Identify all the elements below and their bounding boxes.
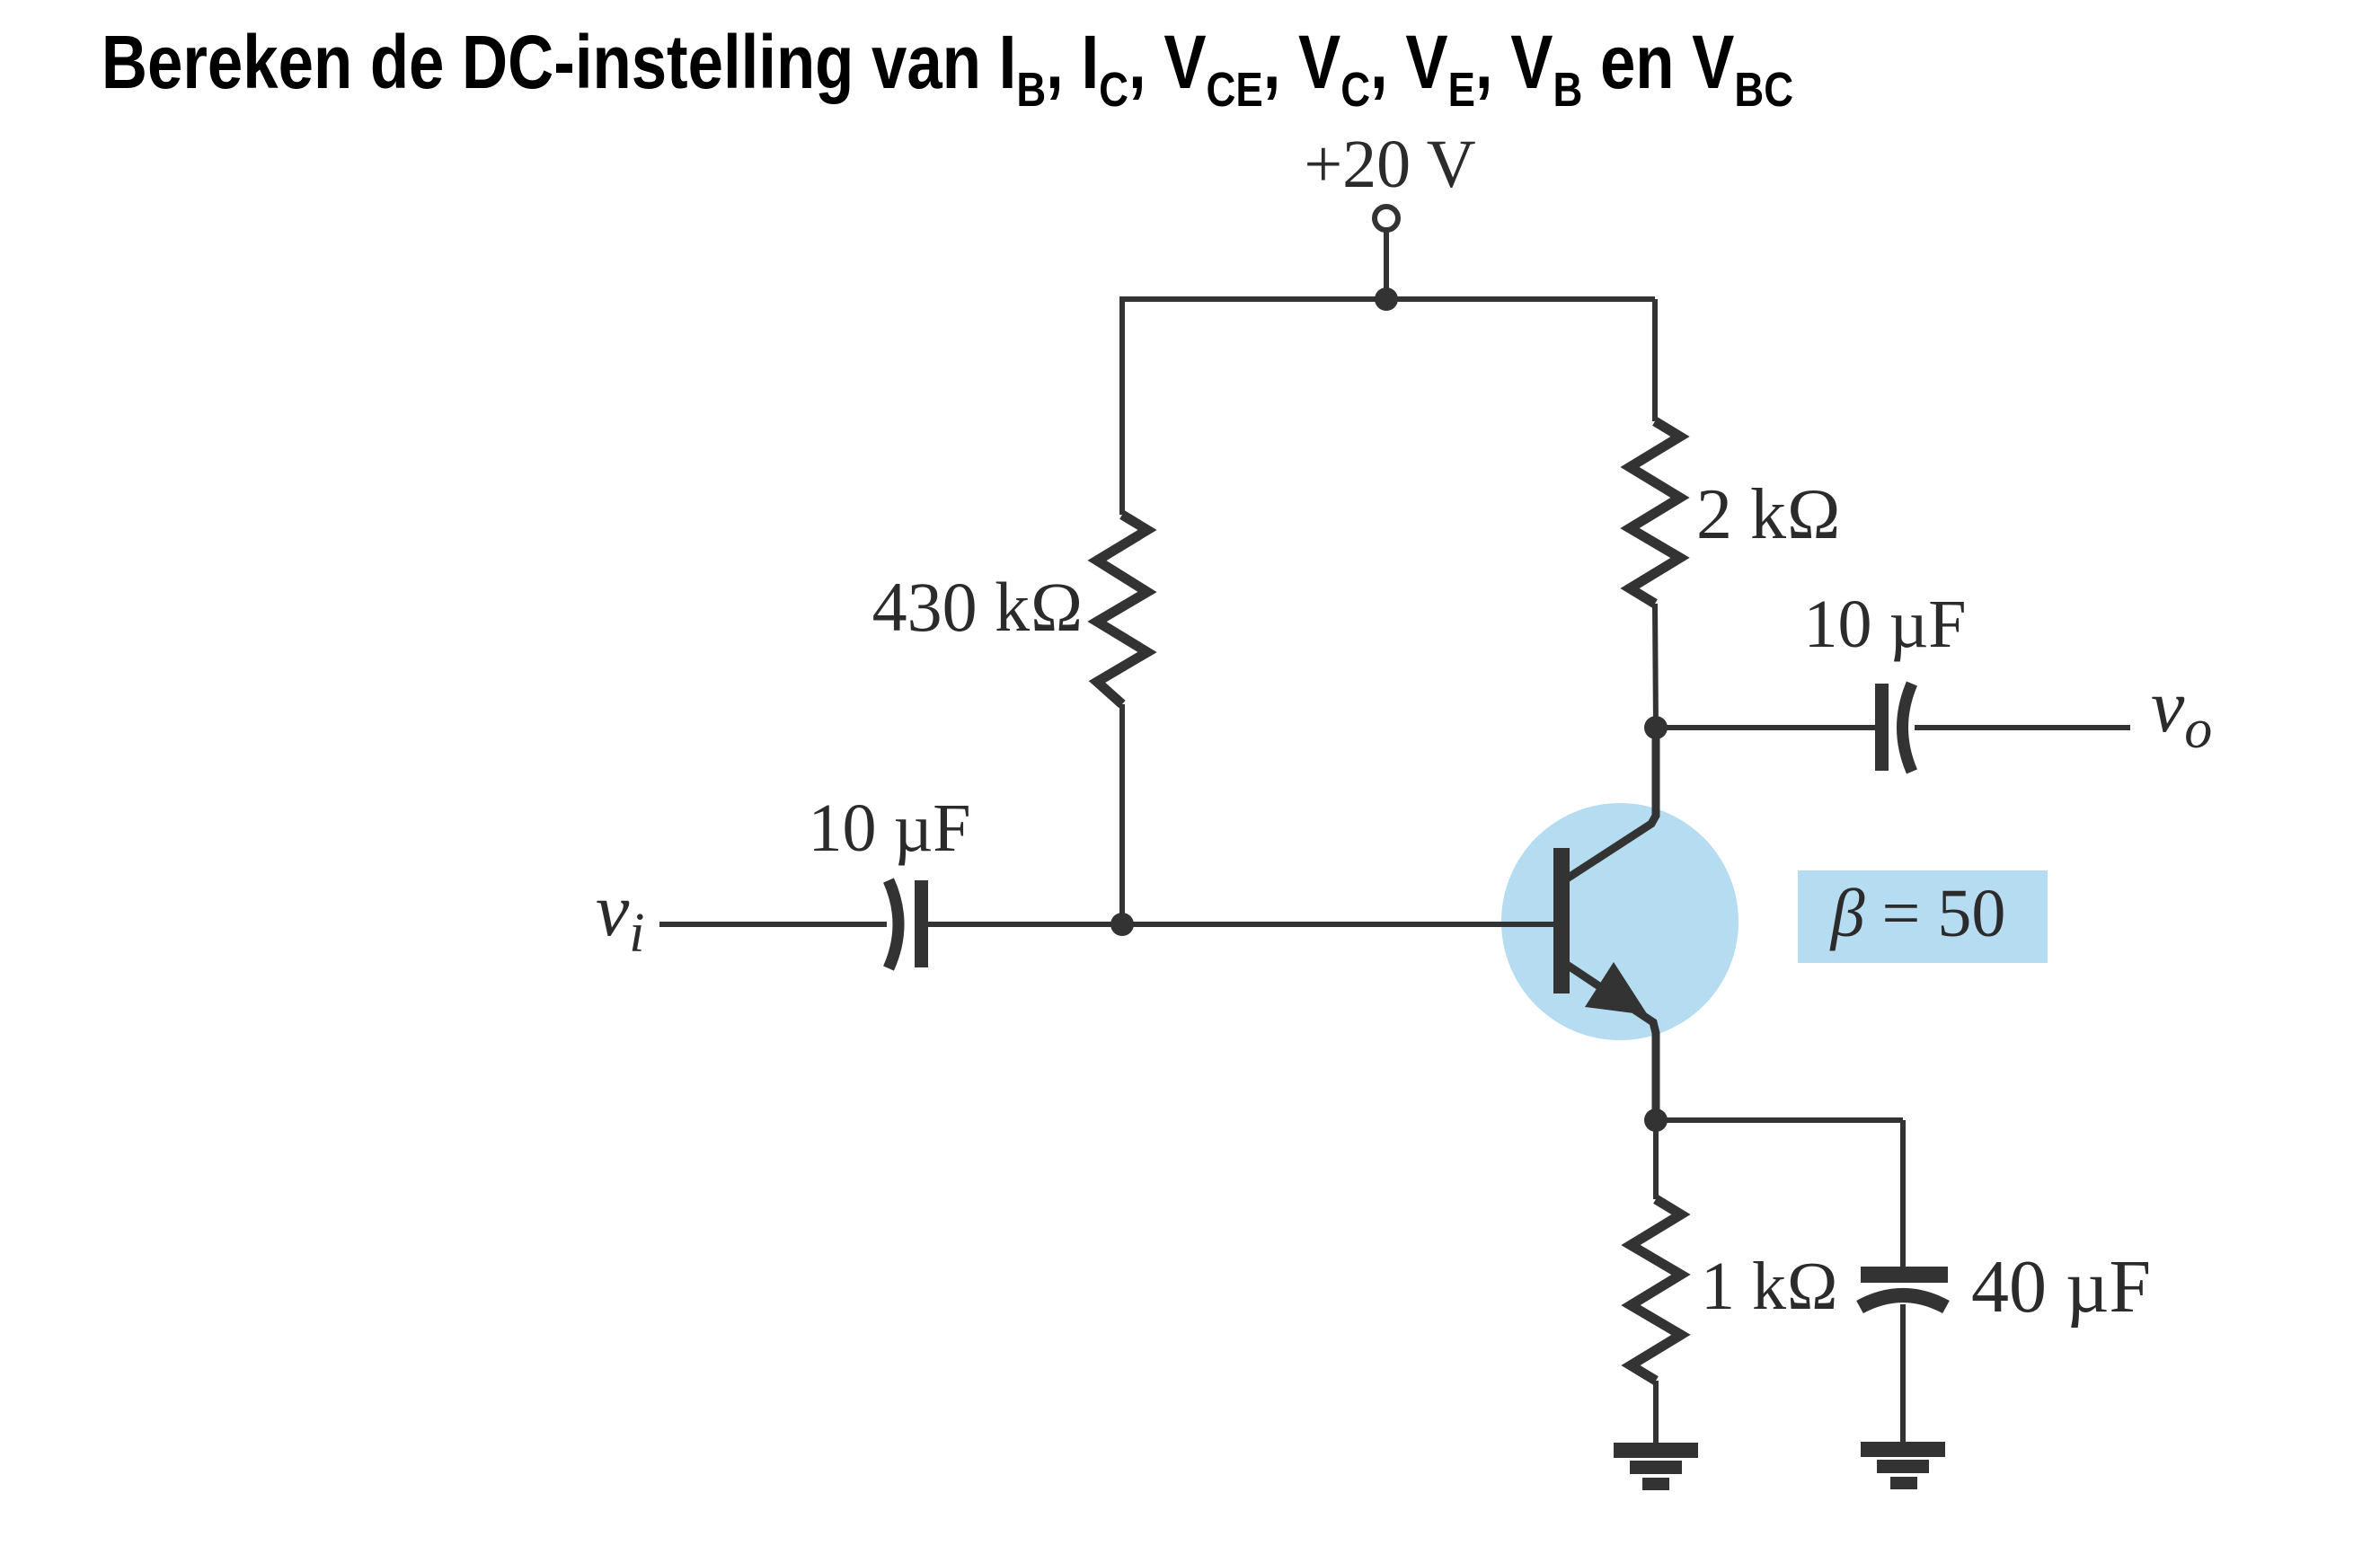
wire to bypass cap [1900,1120,1906,1268]
capacitor C2 10 uF output: straight plate [1875,684,1889,771]
ground right [1861,1442,1945,1489]
wire 1k top lead [1653,1120,1659,1199]
svg-text:vo: vo [2151,665,2212,760]
svg-text:β = 50: β = 50 [1829,876,2006,951]
svg-text:10 µF: 10 µF [1803,587,1966,662]
svg-text:vi: vi [596,869,645,964]
node supply junction [1375,287,1398,311]
wire supply stub [1384,230,1389,299]
node emitter junction [1644,1108,1668,1132]
capacitor CE 40 uF top plate [1861,1267,1948,1283]
svg-text:40 µF: 40 µF [1971,1245,2151,1329]
node base junction [1110,913,1134,936]
capacitor C2 curved plate [1903,684,1913,772]
svg-text:Bereken de DC-instelling van I: Bereken de DC-instelling van IB, IC, VCE… [102,21,1793,117]
wire 1k bottom lead [1653,1381,1659,1444]
svg-text:1 kΩ: 1 kΩ [1701,1249,1838,1324]
transistor Q1 emitter lead [1564,963,1656,1120]
ground left [1614,1443,1698,1490]
wire collector output [1656,725,1876,730]
wire to vo [1915,725,2130,730]
wire 2k bottom lead [1655,604,1656,728]
wire vi lead [659,922,887,927]
resistor RC 2 k ohm [1630,421,1680,604]
wire 2k top lead [1652,299,1658,421]
transistor Q1 emitter arrowhead [1585,962,1648,1015]
capacitor C1 10 uF input: curved plate [889,880,898,968]
wire top rail [1120,296,1655,302]
svg-text:430 kΩ: 430 kΩ [872,568,1084,646]
transistor Q1 base bar [1553,848,1570,993]
wire base lead [928,922,1556,927]
svg-text:2 kΩ: 2 kΩ [1696,475,1841,554]
wire 430k top lead [1119,296,1125,515]
wire bypass cap bottom lead [1900,1304,1906,1444]
label beta box [1798,870,2048,963]
transistor Q1 highlight circle [1501,803,1739,1040]
wire 430k bottom lead [1119,704,1125,924]
supply terminal circle [1375,207,1398,230]
capacitor C1 straight plate [915,880,928,967]
transistor Q1 collector lead [1564,728,1656,880]
capacitor CE 40 uF curved bottom plate [1860,1295,1946,1307]
node collector junction [1644,716,1668,739]
resistor RE 1 k ohm [1631,1199,1681,1381]
svg-text:+20 V: +20 V [1304,127,1475,202]
resistor RB 430 k ohm [1097,515,1147,704]
svg-text:10 µF: 10 µF [808,790,970,866]
wire emitter branch [1656,1117,1903,1123]
